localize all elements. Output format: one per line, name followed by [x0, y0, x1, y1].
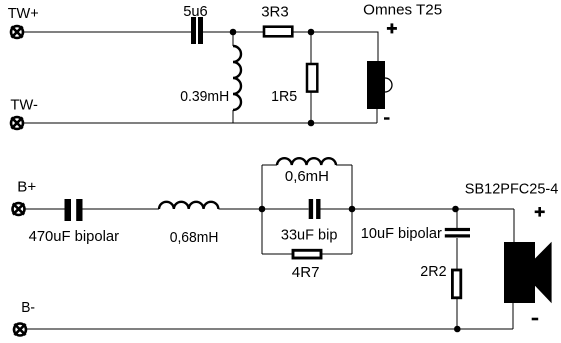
wire woofer bottom rail — [27, 328, 514, 330]
svg-text:5u6: 5u6 — [183, 3, 208, 20]
resistor R4 2R2 — [452, 270, 460, 298]
svg-text:0,68mH: 0,68mH — [170, 229, 219, 246]
label minus woofer — [532, 318, 539, 321]
speaker tweeter Omnes T25 — [367, 61, 392, 109]
wire C1 to R1 — [203, 31, 264, 33]
terminal B- — [14, 324, 26, 336]
wire top to woofer — [513, 209, 515, 242]
resistor R2 1R5 — [307, 64, 317, 92]
terminal TW+ — [11, 26, 23, 38]
inductor L1 0.39mH — [233, 35, 241, 123]
svg-text:TW-: TW- — [10, 97, 38, 114]
wire C3 to node E — [321, 208, 353, 210]
svg-text:3R3: 3R3 — [261, 4, 289, 21]
svg-text:B-: B- — [21, 299, 35, 316]
wire L2 to node D — [218, 208, 262, 210]
wire bottom branch right — [321, 253, 352, 255]
svg-text:10uF bipolar: 10uF bipolar — [361, 225, 442, 242]
label plus tweeter — [387, 23, 397, 33]
svg-text:2R2: 2R2 — [420, 263, 446, 280]
wire R2 to bottom rail — [310, 92, 312, 123]
wire tweeter to bottom rail — [376, 109, 378, 123]
capacitor C1 5u6 — [191, 17, 203, 44]
wire node D to C3 — [262, 208, 309, 210]
capacitor C4 10uF bipolar — [445, 228, 470, 238]
terminal B+ — [13, 203, 25, 215]
wire right branch vertical — [351, 165, 353, 254]
capacitor C3 33uF bip — [309, 199, 321, 219]
node F junction — [452, 206, 459, 213]
node D junction — [259, 206, 266, 213]
svg-text:Omnes T25: Omnes T25 — [363, 1, 442, 18]
node G junction — [454, 326, 461, 333]
wire node F to C4 — [456, 209, 458, 228]
svg-text:0,6mH: 0,6mH — [285, 168, 329, 185]
wire R4 to bottom rail — [456, 298, 458, 329]
wire bottom branch left — [262, 253, 293, 255]
label minus tweeter — [384, 117, 390, 119]
wire node B to R2 — [310, 35, 312, 64]
node E junction — [349, 206, 356, 213]
wire top branch left — [262, 164, 277, 166]
svg-text:SB12PFC25-4: SB12PFC25-4 — [465, 180, 559, 197]
wire woofer to bottom rail — [512, 303, 514, 329]
wire top branch right — [336, 164, 352, 166]
svg-text:B+: B+ — [17, 179, 36, 196]
terminal TW- — [11, 117, 23, 129]
svg-text:470uF bipolar: 470uF bipolar — [29, 228, 120, 245]
svg-text:1R5: 1R5 — [271, 88, 297, 105]
svg-text:33uF bip: 33uF bip — [281, 226, 338, 243]
node A junction — [230, 29, 237, 36]
wire tweeter bottom rail — [24, 122, 378, 124]
wire left branch vertical — [261, 165, 263, 254]
label plus woofer — [535, 207, 545, 217]
wire C4 to R4 — [456, 238, 458, 270]
speaker woofer SB12PFC25-4 — [504, 242, 552, 304]
resistor R3 4R7 — [293, 250, 321, 258]
wire node E to woofer — [352, 208, 514, 210]
node B junction — [308, 29, 315, 36]
wire R1 to tweeter — [293, 32, 378, 62]
wire C2 to L2 — [83, 208, 160, 210]
resistor R1 3R3 — [264, 27, 292, 37]
wire TW+ to C1 — [24, 31, 192, 33]
svg-text:0.39mH: 0.39mH — [180, 88, 229, 105]
svg-text:TW+: TW+ — [8, 5, 39, 22]
inductor L3 0,6mH — [277, 158, 336, 165]
inductor L2 0,68mH — [159, 202, 218, 209]
wire B+ to C2 — [25, 208, 65, 210]
node C junction — [308, 120, 315, 127]
capacitor C2 470uF bipolar — [65, 199, 83, 221]
svg-text:4R7: 4R7 — [292, 264, 320, 281]
